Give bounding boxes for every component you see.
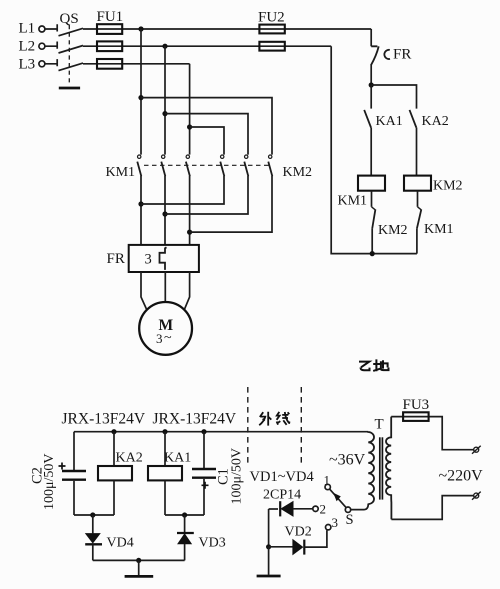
fuse FU1 bbox=[97, 9, 124, 69]
svg-text:100μ/50V: 100μ/50V bbox=[230, 448, 245, 505]
boundary dashed line left bbox=[247, 387, 249, 465]
wire KA1-C1 bottom bbox=[165, 514, 204, 516]
label 乙地 bbox=[359, 359, 389, 371]
thermal relay FR contact (NC) bbox=[371, 46, 411, 65]
wire L1 row bbox=[45, 28, 371, 30]
svg-text:KA1: KA1 bbox=[376, 114, 403, 129]
svg-text:VD3: VD3 bbox=[199, 536, 226, 551]
wire KM1 coil to interlock bbox=[371, 191, 373, 207]
wire phase drop U bbox=[140, 29, 142, 155]
interlock contact KM1 (NC) bbox=[417, 207, 454, 237]
contactor coil KM2 bbox=[404, 176, 463, 194]
transformer T primary winding bbox=[368, 417, 383, 505]
svg-text:3: 3 bbox=[156, 331, 163, 346]
thermal relay FR heater box bbox=[107, 245, 199, 272]
wire secondary top bbox=[391, 417, 474, 450]
capacitor C2 bbox=[30, 432, 87, 515]
svg-text:KA2: KA2 bbox=[422, 114, 449, 129]
svg-text:FR: FR bbox=[107, 251, 125, 267]
wire KM2 output 2 bbox=[165, 176, 248, 214]
fuse FU2 bbox=[258, 10, 285, 51]
svg-text:~220V: ~220V bbox=[439, 468, 484, 485]
junction motor line V bbox=[162, 211, 167, 216]
svg-text:2: 2 bbox=[320, 502, 327, 517]
wire crossover L1 to KM2 bbox=[141, 98, 272, 155]
junction L2 drop bbox=[162, 44, 167, 49]
svg-text:KA2: KA2 bbox=[116, 451, 143, 466]
svg-text:VD2: VD2 bbox=[285, 525, 312, 540]
wire L2 row bbox=[45, 45, 331, 47]
label 外线 bbox=[259, 412, 289, 426]
svg-text:FR: FR bbox=[393, 47, 411, 63]
relay contact KA2 (NO) bbox=[410, 110, 449, 129]
ground left bbox=[125, 575, 154, 578]
svg-text:KM2: KM2 bbox=[433, 179, 463, 194]
wire 24V bus bbox=[74, 431, 368, 433]
svg-text:L3: L3 bbox=[19, 57, 36, 73]
junction control bottom bbox=[370, 251, 375, 256]
wire KM2 output 3 bbox=[190, 176, 272, 232]
diode VD3 bbox=[177, 515, 226, 560]
relay contact KA1 (NO) bbox=[364, 110, 403, 129]
wire KM2 coil to interlock bbox=[417, 191, 419, 207]
junction crossover L1 bbox=[138, 95, 143, 100]
wire junction to KA2 branch bbox=[371, 85, 416, 109]
svg-text:KM1: KM1 bbox=[338, 194, 368, 209]
junction KA1 branch bbox=[162, 429, 167, 434]
svg-text:100μ/50V: 100μ/50V bbox=[42, 453, 57, 510]
ground right bbox=[257, 575, 281, 578]
svg-text:FU2: FU2 bbox=[258, 10, 285, 26]
contactor KM1 main contacts bbox=[106, 155, 190, 180]
wire to ground left bbox=[138, 560, 140, 575]
contactor coil KM1 bbox=[338, 176, 386, 209]
wire L3 row bbox=[45, 63, 190, 65]
wire to ground right bbox=[268, 547, 270, 575]
svg-text:T: T bbox=[375, 417, 384, 433]
junction KA2 branch bbox=[111, 429, 116, 434]
terminal top bbox=[472, 446, 481, 454]
wire secondary bottom bbox=[391, 496, 473, 520]
svg-text:FU3: FU3 bbox=[403, 397, 430, 413]
linkage dashed KM1-KM2 bbox=[144, 164, 270, 166]
wire FR to motor U bbox=[141, 272, 147, 309]
junction ground left bbox=[136, 558, 141, 563]
svg-text:2CP14: 2CP14 bbox=[263, 488, 301, 503]
interlock contact KM2 (NC) bbox=[372, 207, 408, 238]
svg-text:KM1: KM1 bbox=[106, 165, 136, 180]
wire FR to motor V bbox=[164, 272, 166, 302]
svg-text:S: S bbox=[346, 512, 354, 528]
motor M bbox=[139, 302, 192, 355]
capacitor C1 bbox=[192, 432, 245, 515]
svg-text:VD1~VD4: VD1~VD4 bbox=[250, 469, 315, 485]
switch QS bbox=[57, 11, 83, 88]
wire KM1 outputs down bbox=[141, 176, 190, 245]
wire junction to KA1 bbox=[370, 85, 372, 109]
node L2 bbox=[19, 39, 45, 55]
diode VD2 bbox=[269, 525, 327, 555]
svg-text:3: 3 bbox=[332, 515, 339, 530]
junction VD2 branch bbox=[266, 544, 271, 549]
wire L1 to FR contact bbox=[370, 29, 372, 46]
wire KA1 to KM1 coil bbox=[370, 128, 372, 176]
junction VD3 bbox=[182, 512, 187, 517]
svg-text:KM2: KM2 bbox=[283, 165, 313, 180]
node L3 bbox=[19, 57, 45, 73]
svg-text:KA1: KA1 bbox=[164, 451, 191, 466]
wire crossover L2 to KM2 bbox=[165, 114, 248, 155]
wire S to transformer bbox=[351, 504, 369, 510]
wire diode common bbox=[93, 559, 185, 561]
wire FR contact to junction bbox=[370, 65, 372, 85]
junction crossover L3 bbox=[187, 124, 192, 129]
wire crossover L3 to KM2 bbox=[190, 127, 224, 155]
node L1 bbox=[19, 21, 45, 37]
junction crossover L2 bbox=[162, 111, 167, 116]
junction motor line W bbox=[187, 230, 192, 235]
svg-text:FU1: FU1 bbox=[97, 9, 124, 25]
junction control branch bbox=[369, 82, 374, 87]
svg-text:JRX-13F24V: JRX-13F24V bbox=[153, 411, 237, 428]
transformer core bbox=[380, 437, 383, 499]
diode VD1 bbox=[269, 501, 313, 516]
wire C2-KA2 bottom bbox=[74, 514, 114, 516]
svg-text:VD4: VD4 bbox=[107, 536, 134, 551]
svg-text:~36V: ~36V bbox=[329, 452, 366, 469]
boundary dashed line right bbox=[300, 387, 302, 465]
svg-text:~: ~ bbox=[164, 331, 172, 346]
transformer T secondary winding bbox=[386, 417, 391, 520]
wire FR to motor W bbox=[184, 272, 189, 309]
svg-text:1: 1 bbox=[324, 473, 331, 488]
svg-text:KM1: KM1 bbox=[424, 222, 454, 237]
contactor KM2 main contacts bbox=[220, 155, 312, 180]
svg-text:QS: QS bbox=[60, 11, 79, 27]
svg-text:3: 3 bbox=[145, 252, 152, 268]
svg-text:KM2: KM2 bbox=[378, 223, 408, 238]
svg-text:JRX-13F24V: JRX-13F24V bbox=[62, 411, 146, 428]
relay coil KA2 bbox=[98, 432, 143, 515]
junction L1 drop bbox=[138, 26, 143, 31]
junction VD4 bbox=[90, 512, 95, 517]
fuse FU3 bbox=[403, 397, 430, 421]
wire phase drop W bbox=[189, 64, 191, 155]
terminal bottom bbox=[472, 492, 481, 500]
wire VD1 branch down bbox=[268, 509, 270, 547]
junction motor line U bbox=[138, 201, 143, 206]
wire KA2 to KM2 coil bbox=[416, 128, 418, 176]
relay coil KA1 bbox=[148, 432, 191, 515]
wire KM2 output 1 bbox=[141, 176, 224, 204]
junction C1 branch bbox=[201, 429, 206, 434]
wire control return bbox=[331, 46, 417, 253]
svg-text:L2: L2 bbox=[19, 39, 36, 55]
svg-text:L1: L1 bbox=[19, 21, 36, 37]
wire phase drop V bbox=[164, 46, 166, 154]
diode VD4 bbox=[85, 515, 134, 560]
selector switch S bbox=[313, 473, 354, 531]
